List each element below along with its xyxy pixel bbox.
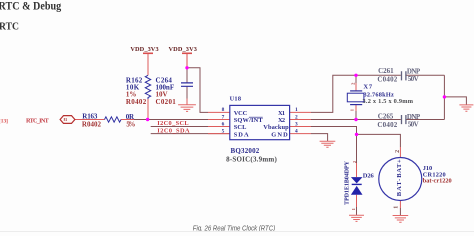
svg-text:VDD_3V3: VDD_3V3 <box>130 46 158 53</box>
svg-text:1: 1 <box>350 109 355 111</box>
svg-text:4: 4 <box>295 129 298 135</box>
svg-text:X1: X1 <box>278 110 285 117</box>
svg-text:2: 2 <box>352 161 357 163</box>
svg-text:D26: D26 <box>363 172 375 179</box>
svg-text:C0402: C0402 <box>377 121 397 129</box>
svg-text:2: 2 <box>295 114 298 120</box>
svg-text:Vbackup: Vbackup <box>263 124 289 131</box>
svg-text:8: 8 <box>222 107 225 113</box>
svg-text:X2: X2 <box>278 117 285 124</box>
svg-text:SCL: SCL <box>234 124 247 131</box>
svg-text:RTC: RTC <box>0 21 19 32</box>
svg-text:6: 6 <box>222 121 225 127</box>
svg-text:I2C0_SDA: I2C0_SDA <box>157 127 190 134</box>
svg-text:8-SOIC(3.9mm): 8-SOIC(3.9mm) <box>226 155 277 163</box>
svg-text:R0402: R0402 <box>82 120 102 128</box>
svg-text:TPD1E1B04DPY: TPD1E1B04DPY <box>343 160 350 205</box>
svg-text:1: 1 <box>394 206 400 209</box>
svg-text:C0402: C0402 <box>377 75 397 83</box>
svg-text:1: 1 <box>295 107 298 113</box>
svg-text:RTC & Debug: RTC & Debug <box>0 0 61 13</box>
svg-text:5%: 5% <box>126 120 135 128</box>
svg-text:5: 5 <box>222 129 225 135</box>
svg-text:SQW/INT: SQW/INT <box>234 117 264 124</box>
svg-text:VDD_3V3: VDD_3V3 <box>169 46 197 53</box>
svg-text:VCC: VCC <box>234 110 248 117</box>
svg-text:U18: U18 <box>230 95 241 102</box>
svg-text:C0201: C0201 <box>156 98 177 106</box>
svg-text:1: 1 <box>351 208 356 210</box>
svg-text:50V: 50V <box>408 121 419 129</box>
svg-text:3: 3 <box>295 121 298 127</box>
svg-text:R163: R163 <box>82 112 98 120</box>
svg-text:BQ32002: BQ32002 <box>231 147 260 155</box>
svg-text:C265: C265 <box>378 113 394 121</box>
svg-text:BAT-: BAT- <box>396 179 403 197</box>
svg-text:[13]: [13] <box>0 119 8 125</box>
svg-text:DNP: DNP <box>407 113 421 121</box>
svg-text:BAT+: BAT+ <box>396 159 403 178</box>
svg-text:DNP: DNP <box>407 67 421 75</box>
svg-text:50V: 50V <box>408 75 419 83</box>
svg-text:81: 81 <box>64 118 68 122</box>
svg-text:RTC_INT: RTC_INT <box>26 118 50 125</box>
svg-text:7: 7 <box>222 114 225 120</box>
svg-text:R0402: R0402 <box>126 98 147 106</box>
svg-text:C261: C261 <box>378 67 394 75</box>
svg-text:I2C0_SCL: I2C0_SCL <box>157 120 188 127</box>
svg-text:2: 2 <box>395 150 401 153</box>
svg-text:3.2 x 1.5 x 0.9mm: 3.2 x 1.5 x 0.9mm <box>363 98 414 105</box>
svg-text:SDA: SDA <box>234 131 249 138</box>
svg-text:GND: GND <box>271 131 288 138</box>
svg-text:bat-cr1220: bat-cr1220 <box>423 178 452 185</box>
svg-text:X7: X7 <box>363 84 372 91</box>
svg-text:2: 2 <box>351 82 356 85</box>
